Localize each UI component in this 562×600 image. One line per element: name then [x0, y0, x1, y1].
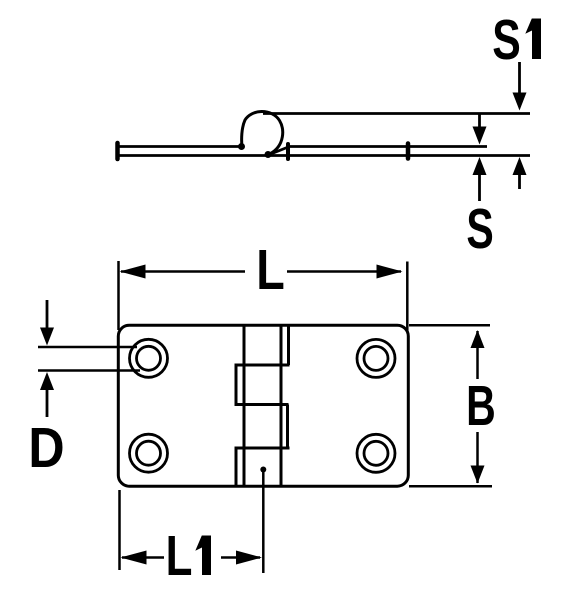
top view: knuckle divider 2	[235, 403, 289, 406]
dimension D upper extension line	[38, 346, 137, 349]
side view: knuckle junction dot bottom	[265, 151, 272, 158]
dimension L left arrowhead	[120, 265, 146, 279]
dimension L1 line right segment	[221, 556, 260, 559]
svg-text:S: S	[466, 196, 493, 260]
dimension L right extension line	[406, 262, 409, 333]
dimension L1 left extension line	[118, 490, 121, 570]
dimension D lower extension line	[38, 369, 140, 372]
dimension L right arrowhead	[377, 265, 403, 279]
side view: left leaf upper line	[119, 145, 241, 148]
dimension L left extension line	[117, 261, 120, 330]
dimension S lower stem	[478, 173, 481, 201]
dimension S1 label digit 1	[525, 19, 541, 60]
dimension B down arrowhead	[471, 466, 485, 484]
top view: knuckle right bump lower	[286, 405, 289, 449]
top view: knuckle left bump lower	[235, 448, 238, 486]
side view: left end cap tick	[115, 143, 120, 159]
side view: knuckle junction dot left	[238, 143, 245, 150]
dimension L1 right arrowhead	[236, 551, 262, 565]
dimension L1 left arrowhead	[121, 551, 147, 565]
dimension D upper stem	[46, 300, 49, 330]
top view: hole top-left outer	[130, 339, 168, 377]
dimension S up arrowhead	[473, 157, 487, 175]
svg-text:B: B	[466, 373, 496, 437]
dimension S1 up arrowhead	[513, 157, 527, 175]
dimension S1 lower stem	[518, 173, 521, 189]
side view: knuckle loop	[242, 111, 283, 154]
svg-text:L: L	[166, 523, 193, 587]
top view: hole bottom-left outer	[130, 434, 168, 472]
dimension B line lower segment	[476, 432, 479, 483]
top view: hinge plate outline	[118, 325, 408, 486]
top view: hole top-right outer	[357, 339, 395, 377]
dimension D up arrowhead	[40, 372, 54, 390]
top view: knuckle right main line	[280, 325, 283, 487]
dimension S down arrowhead	[473, 127, 487, 145]
side view: right leaf upper line	[288, 145, 487, 148]
svg-text:L: L	[256, 239, 285, 302]
top view: hole top-left inner	[137, 346, 161, 370]
top view: knuckle divider 3	[235, 447, 290, 450]
top view: hole top-right inner	[364, 346, 388, 370]
top view: hole bottom-right outer	[357, 434, 395, 472]
side view: knuckle top tangent extension line	[263, 112, 530, 115]
top view: knuckle right bump upper	[287, 325, 290, 365]
dimension B line upper segment	[476, 331, 479, 379]
side view: right leaf end tick	[406, 144, 411, 159]
top view: hole bottom-left inner	[137, 441, 161, 465]
dimension L line left segment	[121, 270, 245, 273]
dimension S1 upper stem	[518, 62, 521, 95]
dimension S upper stem	[478, 115, 481, 130]
top view: knuckle divider 1	[235, 364, 290, 367]
dimension D down arrowhead	[40, 328, 54, 346]
dimension L1 line left segment	[122, 556, 164, 559]
svg-text:D: D	[28, 416, 64, 480]
side view: right leaf start tick	[286, 144, 290, 159]
dimension L1 label digit 1	[195, 536, 211, 576]
side view: lead-in diagonal to right leaf	[272, 148, 287, 154]
top view: hinge pin center line for L1	[262, 469, 265, 573]
dimension L line right segment	[287, 270, 401, 273]
dimension B up arrowhead	[471, 330, 485, 348]
top view: knuckle left main line	[243, 325, 246, 487]
dimension B top extension line	[409, 324, 490, 327]
dimension D lower stem	[46, 388, 49, 417]
side view: lower plate line	[119, 154, 530, 157]
dimension B bottom extension line	[409, 485, 492, 488]
top view: knuckle left bump upper	[235, 365, 238, 405]
top view: hole bottom-right inner	[364, 441, 388, 465]
dimension S1 down arrowhead	[513, 93, 527, 111]
top view: pin line start dot	[260, 467, 266, 473]
svg-text:S: S	[492, 7, 521, 71]
